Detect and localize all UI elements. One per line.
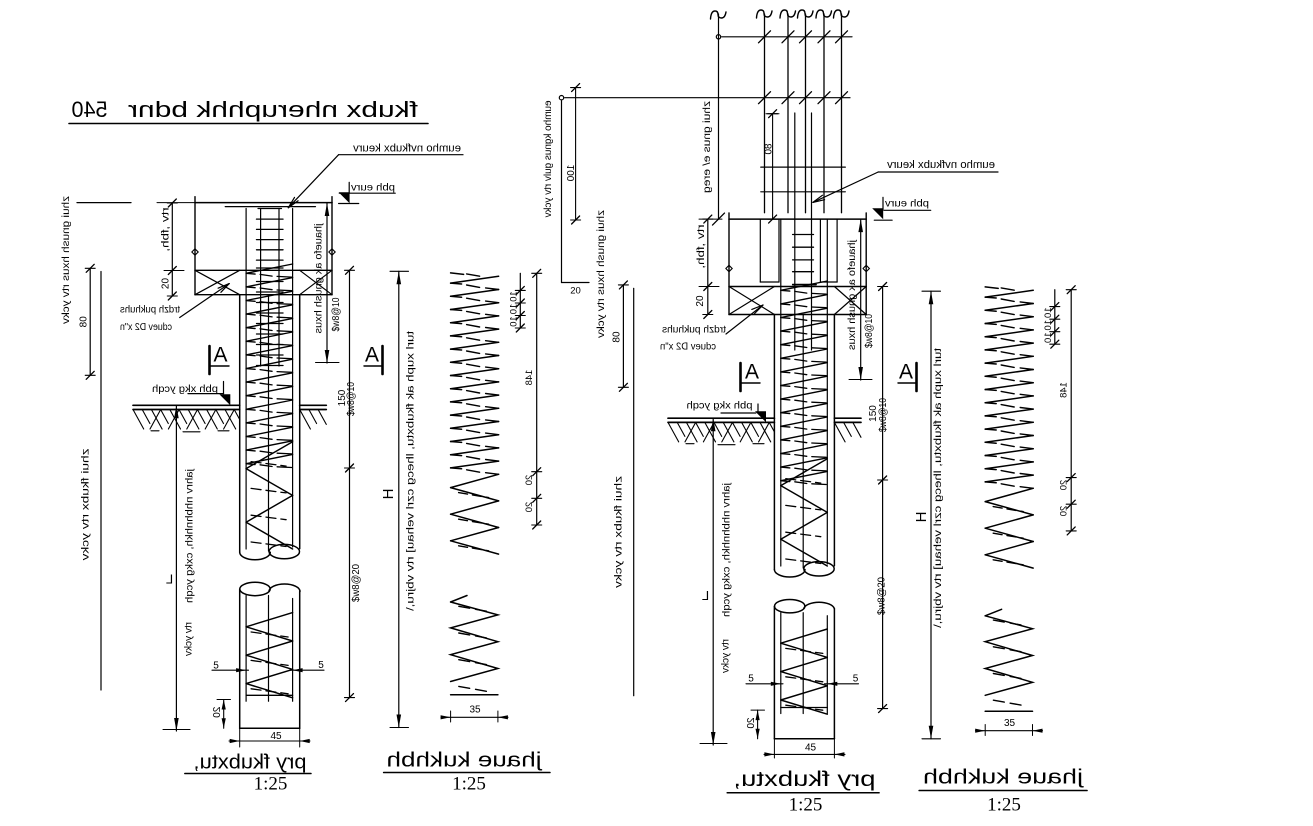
svg-text:20: 20 [1059,480,1070,491]
svg-text:45: 45 [805,743,817,754]
svg-text:$w8@10: $w8@10 [331,297,342,331]
svg-text:zhui fkubx rtv yckv: zhui fkubx rtv yckv [79,449,91,562]
svg-text:20: 20 [695,295,706,307]
svg-text:jahrv nhbhnhkh, cxkg ycqh: jahrv nhbhnhkh, cxkg ycqh [720,482,732,617]
svg-text:rtv ,fbh,: rtv ,fbh, [161,208,172,252]
svg-text:zhui gnush hxus rtv yckv: zhui gnush hxus rtv yckv [595,210,607,339]
svg-text:rtv yckv: rtv yckv [182,622,194,657]
svg-text:1:25: 1:25 [452,773,486,794]
svg-text:jhaue kukhbh: jhaue kukhbh [923,766,1084,788]
svg-text:10: 10 [1043,307,1054,318]
svg-text:5: 5 [213,661,219,672]
svg-text:20: 20 [524,502,535,513]
svg-text:H: H [913,512,930,523]
svg-text:jhauefo ak gnush hxus: jhauefo ak gnush hxus [846,239,858,350]
svg-text:1:25: 1:25 [987,794,1021,815]
svg-text:5: 5 [748,674,754,685]
svg-text:10: 10 [509,304,520,315]
svg-text:10: 10 [1043,332,1054,343]
svg-text:A: A [365,344,379,367]
svg-text:148: 148 [1059,382,1070,398]
svg-text:20: 20 [570,286,581,297]
svg-text:10: 10 [1043,320,1054,331]
svg-text:fkubx nheruphhk bdnr: fkubx nheruphhk bdnr [128,97,418,122]
svg-text:zhui gnush hxus rtv yckv: zhui gnush hxus rtv yckv [60,196,72,325]
svg-text:100: 100 [566,165,577,182]
svg-text:zhui fkubx rtv yckv: zhui fkubx rtv yckv [612,476,624,589]
svg-text:5: 5 [318,660,324,671]
svg-text:jhauefo ak gnush hxus: jhauefo ak gnush hxus [312,222,324,333]
svg-text:20: 20 [746,717,757,729]
svg-text:$w8@10: $w8@10 [864,314,875,348]
svg-text:turl xuph ak fkubxtu, lhecg cz: turl xuph ak fkubxtu, lhecg czrl vehau] … [404,331,416,611]
svg-text:$w8@10: $w8@10 [878,398,889,432]
svg-text:pbh eurv: pbh eurv [884,198,929,210]
svg-text:pry fkubxtu,: pry fkubxtu, [194,751,307,773]
svg-text:20: 20 [1059,506,1070,517]
svg-text:45: 45 [270,731,282,742]
svg-text:pry fkubxtu,: pry fkubxtu, [734,768,876,791]
svg-text:$w8@10: $w8@10 [346,382,357,416]
svg-text:20: 20 [212,707,223,719]
svg-text:A: A [899,361,913,384]
svg-text:10: 10 [509,316,520,327]
svg-text:35: 35 [469,705,481,716]
svg-text:L: L [166,571,173,586]
svg-text:$w8@20: $w8@20 [877,577,888,615]
svg-text:eumho kgnus gulv rtv yckv: eumho kgnus gulv rtv yckv [542,101,554,219]
svg-text:trdzh pukhuhs: trdzh pukhuhs [662,323,726,335]
svg-text:jhaue kukhbh: jhaue kukhbh [387,749,543,771]
svg-text:rtv yckv: rtv yckv [719,639,731,674]
svg-text:10: 10 [509,291,520,302]
svg-text:turl xuph ak fkubxtu, lhecg cz: turl xuph ak fkubxtu, lhecg czrl vehau] … [932,348,944,628]
svg-text:80: 80 [79,316,90,328]
svg-text:trdzh pukhuhs: trdzh pukhuhs [120,303,180,315]
svg-text:20: 20 [161,278,172,290]
svg-text:1:25: 1:25 [254,773,288,794]
svg-text:zhui gnus e/ ereg: zhui gnus e/ ereg [701,101,713,193]
svg-text:pbh xkg ycqh: pbh xkg ycqh [686,399,752,411]
svg-text:540: 540 [72,97,108,122]
svg-text:5: 5 [853,674,859,685]
svg-text:148: 148 [524,370,535,386]
svg-text:20: 20 [524,475,535,486]
svg-text:eumho nvfkubx keurv: eumho nvfkubx keurv [886,159,995,171]
svg-text:35: 35 [1004,718,1016,729]
svg-text:A: A [213,344,227,367]
svg-text:80: 80 [612,331,623,343]
svg-text:A: A [745,361,759,384]
svg-text:L: L [702,588,709,603]
svg-text:1:25: 1:25 [789,794,823,815]
svg-text:jahrv nhbhnhkh, cxkg ycqh: jahrv nhbhnhkh, cxkg ycqh [183,468,195,603]
svg-text:cduev D2 x"n: cduev D2 x"n [120,321,172,333]
svg-text:rtv ,fbh,: rtv ,fbh, [696,225,707,269]
svg-text:cduev D2 x"n: cduev D2 x"n [660,340,716,352]
svg-text:pbh eurv: pbh eurv [350,181,395,193]
svg-text:H: H [380,489,397,500]
svg-text:$w8@20: $w8@20 [351,564,362,602]
svg-text:80: 80 [764,143,775,155]
svg-text:eumho nvfkubx keurv: eumho nvfkubx keurv [352,143,461,155]
